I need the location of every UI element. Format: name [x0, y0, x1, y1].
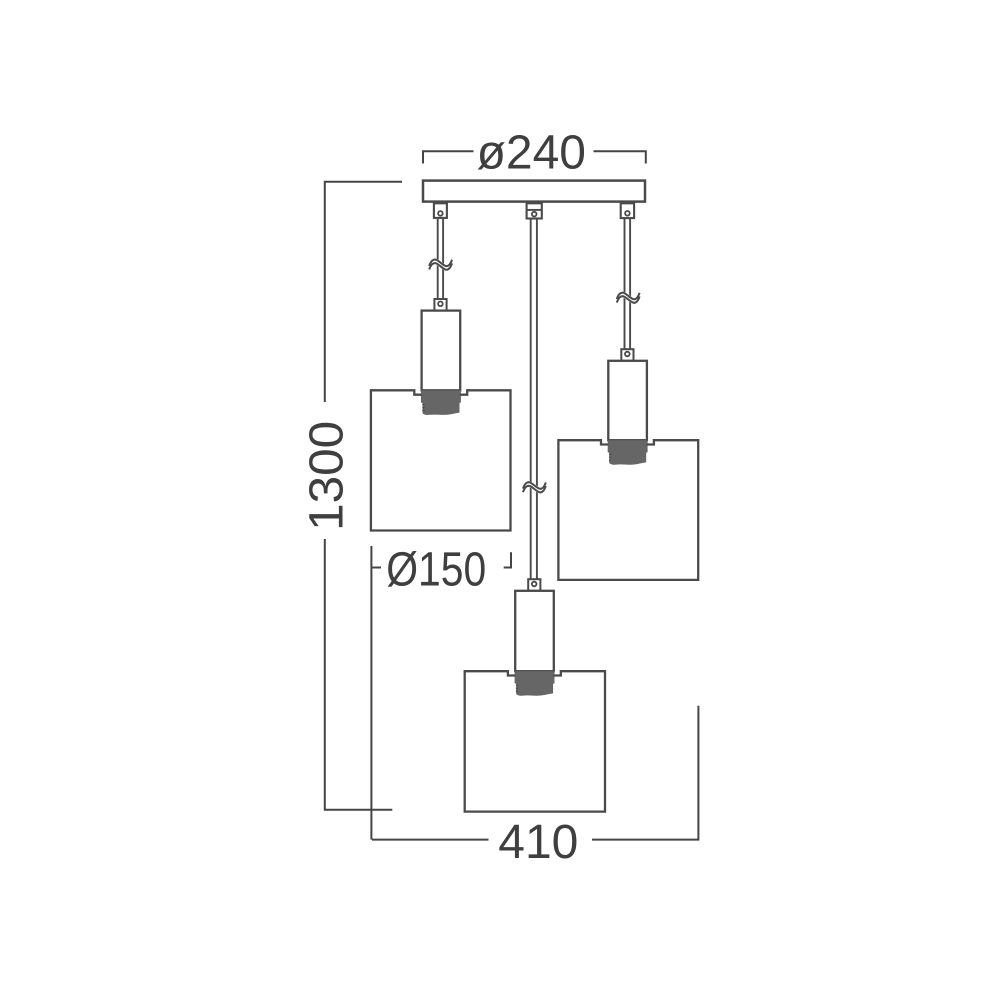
lamp left shade: [371, 390, 511, 530]
hanger grip left: [434, 203, 447, 218]
canopy: [423, 181, 645, 202]
hanger grip center divider: [527, 209, 542, 211]
cord center: [531, 219, 537, 580]
dimension ø240 line: [423, 151, 646, 163]
lamp center cord connector: [528, 579, 540, 591]
lamp left cord connector: [434, 299, 446, 311]
dimension 1300 line: [325, 182, 402, 810]
lamp right cord connector: [621, 349, 633, 361]
hanger grip left eyelet: [438, 211, 443, 216]
cord left break symbol: [429, 259, 452, 269]
cord center break symbol: [523, 482, 546, 492]
dimension 410 line: [372, 706, 698, 840]
svg-text:1300: 1300: [301, 421, 354, 531]
hanger grip center: [527, 203, 542, 218]
lamp left cylinder holder: [422, 311, 461, 391]
cord left: [438, 219, 443, 299]
hanger grip right: [621, 203, 634, 218]
lamp center socket: [515, 671, 555, 696]
cord right break symbol: [617, 293, 640, 303]
dimension Ø150 ticks: [371, 546, 511, 840]
lamp right shade: [558, 440, 698, 580]
lamp center connector eyelet: [532, 582, 537, 587]
svg-text:Ø150: Ø150: [386, 544, 486, 597]
lamp center cylinder holder: [515, 591, 554, 671]
lamp left socket: [421, 390, 461, 415]
lamp right connector eyelet: [625, 352, 630, 357]
lamp left connector eyelet: [438, 302, 443, 307]
lamp right socket: [608, 440, 648, 465]
svg-text:410: 410: [498, 816, 578, 869]
hanger grip center eyelet: [532, 212, 537, 217]
cord right: [625, 219, 631, 350]
lamp center shade: [465, 671, 605, 811]
svg-text:ø240: ø240: [477, 127, 586, 180]
hanger grip right eyelet: [625, 211, 630, 216]
lamp right cylinder holder: [608, 361, 647, 440]
